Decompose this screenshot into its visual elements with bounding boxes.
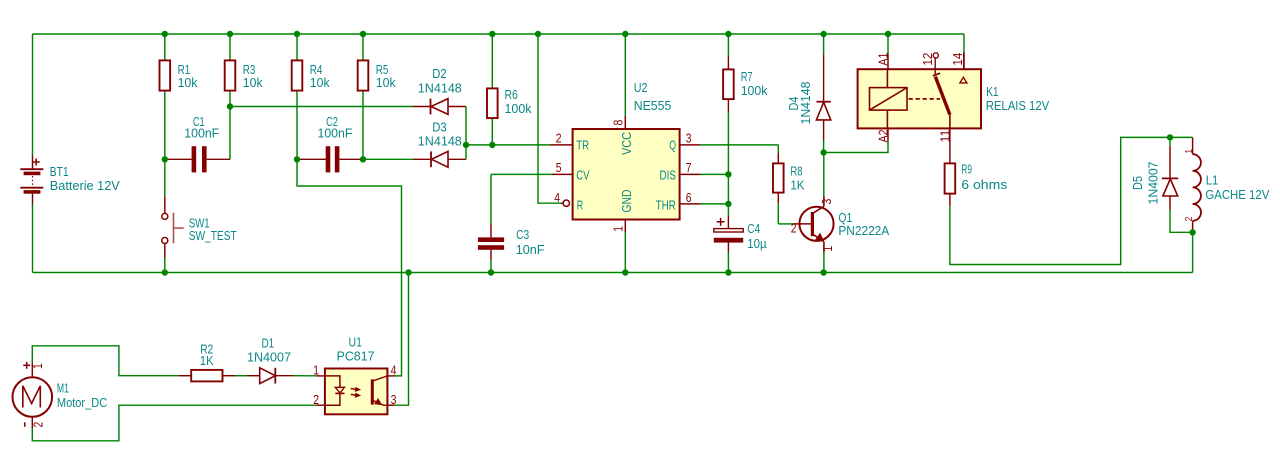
wire D4 bottom to node [823, 120, 825, 140]
svg-text:1N4148: 1N4148 [418, 80, 462, 95]
resistor R5 body [358, 60, 369, 90]
wire R1 bottom to C1 node [164, 91, 166, 159]
wire top-right drop to relay pin 14 [963, 34, 965, 53]
junction dots on +12V rail [162, 31, 168, 37]
svg-text:SW_TEST: SW_TEST [189, 228, 237, 243]
wire CV net U2 pin 5 to C3 [552, 173, 573, 175]
svg-text:10µ: 10µ [747, 236, 767, 251]
svg-text:100k: 100k [741, 83, 768, 98]
wire M1 + to R2 [31, 363, 33, 377]
svg-text:NE555: NE555 [634, 98, 672, 113]
node D5/L1 bottom junction [1189, 229, 1195, 235]
wire Q net U2 pin 3 to R8 [680, 144, 700, 146]
M1 plus mark [23, 364, 30, 366]
svg-text:THR: THR [656, 197, 676, 212]
svg-text:C4: C4 [747, 221, 760, 236]
wire L1 pin 2 [1192, 221, 1194, 233]
motor M1 [13, 377, 53, 417]
svg-text:11: 11 [937, 130, 952, 143]
wire R7 bottom through DIS/THR to C4 [727, 100, 729, 113]
svg-text:L1: L1 [1206, 172, 1219, 187]
wire R3 bottom to node [229, 91, 231, 107]
svg-text:R: R [577, 197, 583, 212]
resistor R1 body [160, 60, 171, 90]
transistor Q1 [799, 207, 833, 241]
svg-text:GND: GND [619, 190, 634, 213]
svg-text:2: 2 [1184, 216, 1195, 221]
svg-text:100nF: 100nF [318, 126, 353, 141]
svg-text:R9: R9 [961, 162, 972, 177]
svg-text:Motor_DC: Motor_DC [57, 395, 108, 410]
wire DIS net U2 pin 7 to R7 [680, 173, 700, 175]
wire R2 to D1 [223, 375, 235, 377]
svg-text:D2: D2 [432, 66, 446, 81]
diode D5 [1163, 179, 1178, 196]
wire node to relay A2 [824, 141, 888, 153]
wire bottom GND rail [33, 272, 1193, 274]
svg-text:10k: 10k [310, 75, 330, 90]
svg-text:2: 2 [791, 221, 797, 236]
wire riser GND rail to L1 pin 2 [1192, 232, 1194, 272]
diode D1 [260, 368, 276, 384]
node C2/R4/U1 junction [294, 156, 300, 162]
svg-text:1: 1 [30, 363, 45, 369]
wire R6 top [491, 34, 493, 88]
wire node R3/C1 riser [229, 107, 231, 160]
svg-text:1N4007: 1N4007 [247, 349, 291, 364]
wire R4 bottom to C2 node [296, 91, 298, 159]
svg-text:3: 3 [391, 392, 397, 407]
wire C1 node down to SW1 [164, 159, 166, 197]
wire D2 row [230, 106, 413, 108]
wire D2 to TR node [465, 107, 467, 145]
capacitor C4 plus mark [717, 221, 725, 223]
svg-text:RELAIS 12V: RELAIS 12V [986, 98, 1050, 113]
svg-text:BT1: BT1 [50, 164, 69, 179]
svg-text:PN2222A: PN2222A [838, 223, 889, 238]
svg-text:GACHE 12V: GACHE 12V [1205, 187, 1269, 202]
wire R1 top [164, 34, 166, 60]
svg-text:TR: TR [576, 137, 589, 152]
wire R9 bottom run to L1 top [949, 194, 951, 206]
wire D5 top lead [1169, 137, 1171, 146]
node DIS/R7 junction [725, 171, 731, 177]
svg-text:U2: U2 [634, 80, 648, 95]
svg-text:R6: R6 [505, 87, 518, 102]
wire relay A2 pin stub [887, 128, 889, 141]
svg-text:C3: C3 [516, 227, 529, 242]
wire top +12V rail [33, 33, 965, 35]
resistor R3 body [225, 60, 236, 90]
wire R6 bottom to TR net [491, 119, 493, 145]
svg-text:2: 2 [313, 392, 319, 407]
svg-text:14: 14 [950, 53, 965, 66]
wire D5 bottom to L1 pin 2 [1169, 196, 1171, 210]
wire R4 top [296, 34, 298, 60]
svg-text:A2: A2 [876, 130, 891, 143]
svg-text:100nF: 100nF [184, 126, 219, 141]
switch SW1 [162, 213, 168, 219]
svg-text:CV: CV [576, 168, 589, 183]
U2 pin 4 invert circle [563, 200, 569, 206]
svg-text:1: 1 [610, 226, 625, 232]
wire RESET pin stub [561, 202, 563, 204]
svg-text:PC817: PC817 [337, 349, 375, 364]
wire C3 bottom to GND rail [490, 250, 492, 260]
svg-text:M1: M1 [57, 381, 69, 396]
wire Q1 base pin [793, 223, 812, 225]
op-amp U2 NE555 body [573, 129, 680, 220]
svg-text:R8: R8 [790, 164, 802, 179]
svg-text:4: 4 [554, 190, 560, 205]
wire D2 anode lead [448, 106, 466, 108]
svg-text:1K: 1K [200, 353, 214, 368]
svg-text:U1: U1 [349, 334, 362, 349]
svg-text:1N4007: 1N4007 [1146, 162, 1161, 205]
diode D4 [816, 102, 830, 120]
wire R8 bottom to Q1 base [777, 193, 779, 203]
wire L1 pin 1 [1192, 137, 1194, 154]
svg-text:1: 1 [313, 363, 319, 378]
svg-text:DIS: DIS [660, 168, 677, 183]
svg-text:8: 8 [610, 120, 625, 126]
svg-text:VCC: VCC [619, 132, 634, 155]
svg-text:10k: 10k [178, 75, 198, 90]
svg-text:Q: Q [669, 137, 676, 152]
node TR junction D2/D3 [463, 142, 469, 148]
wire U1 pin 4 to C2/R4 node [387, 375, 394, 377]
svg-text:1N4148: 1N4148 [418, 134, 462, 149]
svg-text:10k: 10k [376, 75, 396, 90]
svg-text:3: 3 [686, 130, 692, 145]
inductor L1 [1193, 154, 1201, 221]
resistor R9 body [945, 163, 956, 193]
node R3/D2/C1 junction [227, 103, 233, 109]
svg-text:7: 7 [686, 160, 692, 175]
diode D3 [432, 151, 449, 167]
wire TR net to U2 pin 2 [466, 144, 550, 146]
resistor R4 body [292, 60, 303, 90]
wire SW1 bottom to GND rail [164, 244, 166, 258]
svg-text:3: 3 [819, 199, 834, 205]
svg-text:1: 1 [820, 246, 835, 252]
svg-text:6 ohms: 6 ohms [961, 177, 1007, 192]
junction dots on GND rail [162, 269, 168, 275]
optocoupler U1 PC817 [325, 369, 388, 415]
wire D3 cathode lead [413, 158, 431, 160]
wire relay pin 14 stub [963, 53, 965, 69]
resistor R6 body [487, 88, 498, 118]
svg-text:6: 6 [686, 190, 692, 205]
svg-text:D1: D1 [262, 335, 275, 350]
wire D3 anode lead [448, 158, 466, 160]
wire C4 bottom to GND rail [727, 242, 729, 252]
svg-text:Batterie 12V: Batterie 12V [50, 178, 120, 193]
svg-text:100k: 100k [505, 101, 532, 116]
svg-text:D5: D5 [1130, 176, 1145, 190]
svg-text:1: 1 [1184, 149, 1195, 154]
M1 minus tick [24, 422, 26, 427]
wire THR net U2 pin 6 to R7 [680, 203, 700, 205]
resistor R2 body [191, 370, 222, 382]
svg-text:K1: K1 [986, 84, 999, 99]
wire M1 - to U1 pin 2 [31, 417, 33, 428]
capacitor C1 [165, 158, 192, 160]
resistor R7 body [723, 69, 734, 99]
wire node down to Q1 collector [823, 153, 825, 197]
wire left rail battery - down to ground rail [32, 205, 34, 273]
wire Q1 emitter to GND rail [823, 252, 825, 273]
svg-text:1N4148: 1N4148 [798, 82, 813, 125]
node C2/R5/D3 junction [360, 156, 366, 162]
svg-text:2: 2 [31, 422, 46, 428]
svg-text:1K: 1K [790, 178, 804, 193]
svg-text:A1: A1 [876, 53, 891, 66]
diode D2 [431, 99, 448, 115]
wire U2 GND pin 1 to rail [624, 220, 626, 233]
wire U2 VCC pin 8 to rail [624, 34, 626, 116]
wire D3 to TR node [465, 145, 467, 159]
wire R7 top [727, 34, 729, 56]
wire R5 top [362, 34, 364, 60]
node TR junction R6 [489, 142, 495, 148]
battery BT1 plus mark [33, 161, 40, 163]
battery BT1 [20, 168, 43, 170]
resistor R8 body [773, 163, 784, 192]
svg-text:10k: 10k [243, 75, 263, 90]
svg-text:R7: R7 [741, 69, 753, 84]
svg-text:D3: D3 [432, 119, 446, 134]
capacitor C2 [297, 158, 326, 160]
svg-text:12: 12 [920, 53, 935, 66]
wire R3 top [229, 34, 231, 60]
node THR/C4 junction [725, 201, 731, 207]
wire U1 pin 3 to GND rail [387, 404, 394, 406]
wire D4 top to rail [823, 34, 825, 55]
svg-text:4: 4 [391, 363, 397, 378]
svg-text:2: 2 [556, 130, 562, 145]
capacitor C4 [714, 229, 743, 232]
svg-text:5: 5 [556, 160, 562, 175]
svg-text:10nF: 10nF [516, 242, 545, 257]
wire R5 bottom to C2 node [362, 91, 364, 159]
wire relay A1 pin to rail [887, 34, 889, 54]
wire D3 row [363, 158, 413, 160]
relay K1 [858, 69, 981, 128]
node C1/R1/SW1 junction [162, 156, 168, 162]
wire left rail from top to battery + [32, 34, 34, 156]
wire D2 cathode lead [413, 106, 431, 108]
node D5/L1 top junction [1167, 134, 1173, 140]
wire relay pin 11 to R9 [949, 128, 951, 163]
wire VCC to RESET [538, 34, 561, 203]
node D4/A2/Q1 junction [820, 149, 826, 155]
capacitor C3 [478, 237, 504, 242]
wire D1 to U1 pin 1 [275, 375, 293, 377]
